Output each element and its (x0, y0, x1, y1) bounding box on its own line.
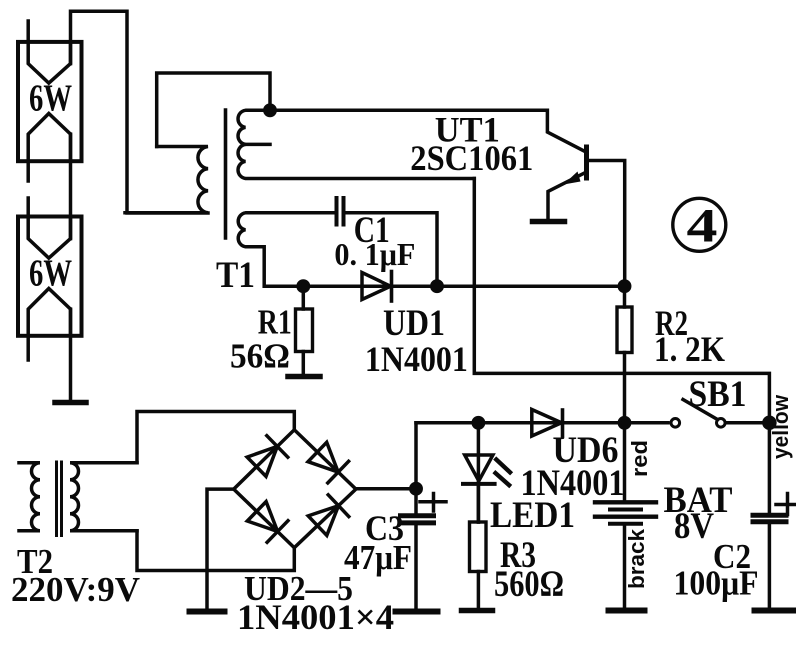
svg-text:560Ω: 560Ω (494, 564, 564, 605)
bridge edges (234, 430, 356, 548)
LED1 branch wire (477, 423, 481, 522)
node R2 top (619, 281, 629, 291)
ground battery (609, 608, 645, 614)
ground bridge (190, 609, 225, 615)
battery BAT (623, 423, 627, 501)
wire C3 up to rail (414, 423, 418, 489)
svg-text:SB1: SB1 (689, 373, 747, 414)
ground C2 (755, 608, 794, 614)
wire bridge left to ground (207, 489, 234, 611)
ground C3 (396, 609, 438, 615)
wire bridge right to C3 (356, 487, 416, 491)
resistor R3 (477, 484, 481, 522)
ground lamp (55, 400, 86, 406)
T1 primary winding (125, 147, 208, 213)
svg-text:2SC1061: 2SC1061 (410, 138, 533, 178)
transistor UT1 base bar (584, 147, 589, 178)
lamp LP1 box (18, 42, 82, 161)
svg-text:1N4001×4: 1N4001×4 (237, 597, 394, 637)
node LED top (473, 418, 483, 428)
emitter arrow (564, 172, 581, 185)
ground R3 (462, 608, 493, 614)
bridge diode D4 (left-bottom) (247, 502, 277, 532)
transformer T1 core (224, 110, 228, 238)
T2 primary winding (19, 463, 40, 531)
switch SB1 contact right (717, 419, 726, 428)
wire lamp series top (71, 11, 209, 213)
transistor UT1 emitter (548, 172, 587, 219)
wire mid rail (303, 284, 624, 288)
svg-text:8V: 8V (674, 506, 714, 547)
wire T2 sec bottom to bridge (137, 531, 294, 571)
svg-text:1N4001: 1N4001 (365, 339, 468, 379)
svg-text:100μF: 100μF (674, 563, 759, 602)
node C2 top (764, 417, 775, 428)
T1 feedback winding tap (246, 143, 271, 147)
ground R1 (288, 374, 320, 380)
svg-text:6W: 6W (29, 77, 72, 119)
svg-text:R1: R1 (258, 303, 292, 341)
wire lamp1 to lamp2 (69, 134, 73, 239)
svg-text:56Ω: 56Ω (230, 338, 290, 376)
svg-text:47μF: 47μF (344, 538, 412, 577)
diode UD6 (532, 410, 562, 437)
capacitor C2 (768, 423, 772, 514)
svg-text:T1: T1 (216, 255, 255, 296)
transistor UT1 collector (587, 161, 625, 287)
diode UD1 (362, 273, 391, 300)
lamp LP2 filaments (28, 198, 70, 258)
bridge diode D5 (bottom-right) (308, 506, 338, 536)
node battery top (619, 418, 629, 428)
bridge diode D3 (top-right) (308, 442, 338, 472)
capacitor C1 plates (335, 198, 339, 225)
T2 secondary winding (70, 463, 137, 531)
T1 feedback winding (238, 110, 474, 178)
svg-text:0. 1μF: 0. 1μF (334, 236, 415, 272)
C3 plus (420, 500, 446, 504)
bridge diode D2 (left-top) (247, 446, 277, 476)
wire T2 sec top to bridge (137, 412, 294, 463)
C2 plus (776, 503, 795, 507)
wire C1 right (344, 213, 438, 286)
lamp LP1 filaments (28, 21, 70, 83)
svg-text:red: red (627, 440, 652, 477)
node T1 top / main top wire (265, 105, 275, 115)
node R1 top (298, 281, 308, 291)
node C3 (411, 484, 421, 494)
svg-text:brack: brack (624, 528, 649, 589)
svg-text:6W: 6W (29, 252, 72, 294)
svg-text:1. 2K: 1. 2K (654, 329, 725, 369)
switch SB1 blade (683, 400, 718, 420)
transformer T2 core (55, 462, 58, 536)
figure circle 4 (673, 198, 726, 251)
wire SB1 to C2 (726, 421, 770, 425)
node C1 right (432, 281, 442, 291)
wire lamp2 to ground (69, 309, 73, 401)
wire feedback down right (474, 179, 769, 423)
LED1 (465, 455, 493, 481)
svg-text:LED1: LED1 (490, 495, 575, 536)
wire bottom rail (416, 421, 668, 425)
T1 base winding (238, 213, 336, 286)
svg-text:220V:9V: 220V:9V (11, 570, 140, 609)
lamp LP2 box (18, 217, 82, 336)
ground emitter (533, 219, 565, 225)
svg-text:4: 4 (687, 200, 718, 253)
LED1 rays (496, 460, 510, 473)
svg-text:yellow: yellow (768, 394, 793, 459)
switch SB1 contact left (671, 419, 680, 428)
capacitor C3 (414, 489, 418, 515)
wire main top to transistor base (270, 110, 586, 152)
resistor R1 (302, 286, 306, 309)
resistor R2 (623, 286, 627, 307)
wire T1 primary loop (157, 73, 270, 147)
